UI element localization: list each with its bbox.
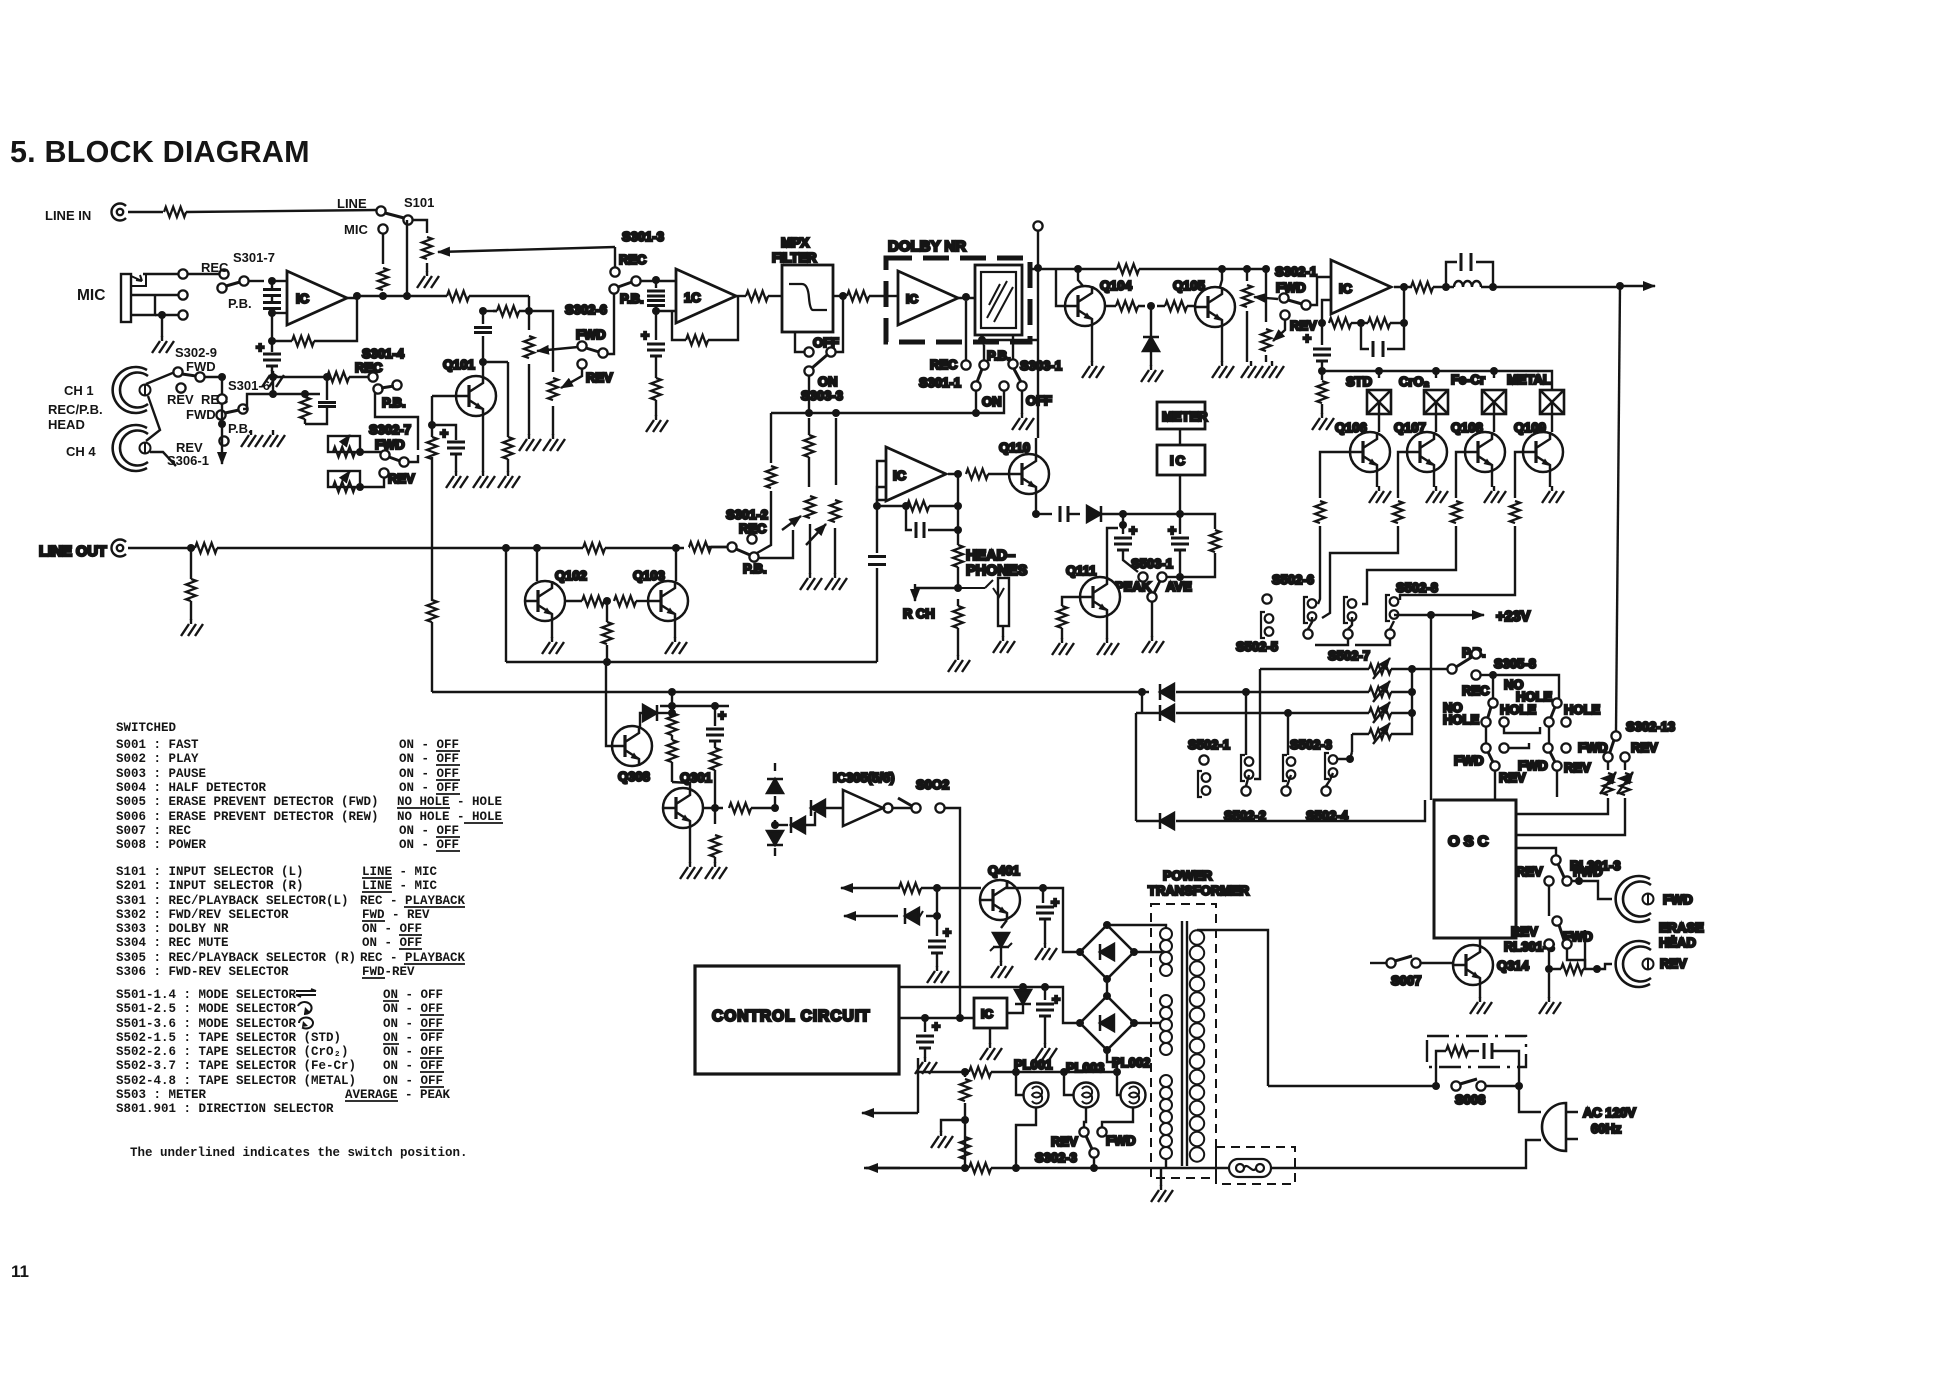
svg-text:HĖAD: HĖAD (1659, 935, 1696, 950)
svg-text:Q105: Q105 (1173, 278, 1205, 293)
resistor Q109 base (1515, 452, 1523, 498)
filter curve (789, 284, 827, 310)
svg-text:REV: REV (1516, 864, 1543, 879)
svg-text:STD: STD (1346, 374, 1372, 389)
svg-text:HOLE: HOLE (1443, 712, 1479, 727)
wire S302-6 riser (607, 294, 614, 354)
wire S101 to record level pot (412, 220, 427, 233)
svg-text:Q103: Q103 (633, 568, 665, 583)
legend underlines (345, 751, 503, 1101)
resistor (bus) (1117, 264, 1139, 274)
svg-text:P.B.: P.B. (620, 291, 644, 306)
ground (498, 471, 520, 488)
svg-text:S302-1: S302-1 (1275, 264, 1317, 279)
wire reg out arrows (841, 887, 937, 889)
resistor (line out) (186, 579, 196, 601)
svg-text:AVERAGE - PEAK: AVERAGE - PEAK (345, 1088, 451, 1102)
wire staircase (1400, 526, 1515, 600)
svg-text:LINE OUT: LINE OUT (39, 544, 107, 560)
erase head FWD (1616, 876, 1654, 922)
wire Q104 base (1056, 269, 1065, 306)
wire to node (382, 294, 384, 296)
wire bus y413 (771, 412, 976, 414)
wire REC riser (752, 527, 757, 534)
diode row A (1160, 684, 1174, 700)
inductor L (1454, 281, 1481, 287)
svg-text:+: + (1168, 522, 1176, 538)
resistor (mic) (378, 268, 388, 290)
svg-text:HEAD: HEAD (48, 417, 85, 432)
wire Q101 resistor right (507, 362, 509, 437)
svg-text:REV: REV (1660, 956, 1687, 971)
row 1 (top) to P.B. (1260, 668, 1447, 670)
svg-text:S502-8: S502-8 (1396, 580, 1438, 595)
svg-text:S501-3.6 : MODE SELECTOR: S501-3.6 : MODE SELECTOR (116, 1017, 297, 1031)
svg-text:ON - OFF: ON - OFF (362, 936, 422, 950)
resistor (output) (746, 291, 768, 301)
svg-text:ON - OFF: ON - OFF (399, 738, 459, 752)
svg-text:IC: IC (1339, 281, 1353, 296)
filter RC (1436, 1051, 1446, 1086)
lower diode wire (1135, 713, 1137, 821)
svg-text:ON: ON (818, 374, 838, 389)
op-amp U102 (676, 269, 736, 323)
wire erase fwd junction (1579, 869, 1585, 969)
node B chain down (528, 311, 530, 330)
svg-text:LINE: LINE (337, 196, 367, 211)
svg-text:ON: ON (982, 394, 1002, 409)
svg-text:S305-8: S305-8 (1494, 656, 1536, 671)
op-amp (dolby IC) (898, 271, 958, 325)
svg-text:S007: S007 (1391, 973, 1421, 988)
svg-text:REV: REV (1511, 924, 1538, 939)
svg-text:S305 : REC/PLAYBACK SELECTOR (: S305 : REC/PLAYBACK SELECTOR (R) (116, 951, 356, 965)
resistor (out) (1411, 282, 1433, 292)
svg-text:FWD: FWD (1276, 280, 1306, 295)
svg-text:POWER: POWER (1163, 868, 1213, 883)
transistor Q308 (612, 726, 652, 766)
svg-text:HEAD–: HEAD– (966, 548, 1015, 564)
wire Q104 collector (1078, 269, 1083, 286)
svg-text:S201 : INPUT SELECTOR (R): S201 : INPUT SELECTOR (R) (116, 879, 304, 893)
svg-text:S306-1: S306-1 (167, 453, 209, 468)
svg-text:PL003: PL003 (1066, 1060, 1104, 1075)
coupling cap riser (877, 500, 886, 662)
wire resistor to S101 LINE contact (186, 210, 376, 212)
svg-text:CH 4: CH 4 (66, 444, 96, 459)
dolby cell box (hatched) (975, 265, 1022, 335)
resistor coupling (582, 596, 604, 606)
svg-text:LINE - MIC: LINE - MIC (362, 879, 438, 893)
svg-text:IC305(5/6): IC305(5/6) (833, 770, 894, 785)
wire Q101 base chain (432, 395, 456, 397)
svg-text:Q109: Q109 (1514, 420, 1546, 435)
svg-text:P.B.: P.B. (382, 395, 406, 410)
svg-text:IC: IC (893, 468, 907, 483)
svg-text:TRANSFORMER: TRANSFORMER (1148, 883, 1250, 898)
wire pot wiper arrow from S301-3 REC (438, 247, 615, 252)
wire line out bus (128, 547, 727, 548)
wires mic jack to S301-7 (143, 273, 178, 275)
pilot lamp bus (918, 1071, 1117, 1073)
svg-text:FWD: FWD (576, 327, 606, 342)
X indicator STD (1378, 371, 1380, 378)
svg-text:IC: IC (906, 292, 918, 306)
svg-text:S302-13: S302-13 (1626, 719, 1675, 734)
svg-text:S008: S008 (1455, 1092, 1485, 1107)
wire riser to opamp (1310, 277, 1331, 305)
pot (pb level R) (835, 418, 837, 485)
svg-text:Q107: Q107 (1394, 420, 1426, 435)
svg-text:CH 1: CH 1 (64, 383, 94, 398)
wire (886, 295, 898, 297)
svg-text:DOLBY NR: DOLBY NR (888, 238, 966, 255)
feedback resistor 1 (1318, 319, 1326, 327)
svg-text:ON - OFF: ON - OFF (399, 824, 459, 838)
svg-text:HOLE: HOLE (1564, 702, 1600, 717)
bridge rectifier D402 (1080, 996, 1134, 1050)
capacitor (collector) (482, 311, 484, 362)
wire left drop (770, 413, 772, 463)
wire PB contact riser / node (981, 335, 983, 340)
switch S301-4 (368, 372, 377, 381)
transistor Q109 (1551, 402, 1553, 432)
IC box (meter amp) (1157, 445, 1205, 475)
op-amp U104 (headphone) (886, 447, 946, 501)
svg-text:REC: REC (930, 357, 958, 372)
switch S306-1 lower (216, 410, 225, 419)
resistor lower (953, 606, 963, 628)
wires opamp inputs (272, 280, 287, 282)
svg-text:+: + (1303, 330, 1311, 346)
svg-text:S007 : REC: S007 : REC (116, 824, 192, 838)
wire P.B. caps feedback row (243, 394, 273, 409)
feedback cap (1361, 323, 1404, 349)
wire to REV pot (529, 311, 553, 372)
primary winding 2 (1160, 995, 1166, 1023)
record level pot VR101 (422, 237, 432, 259)
output node (1400, 283, 1408, 291)
op-amp U103 (1331, 260, 1391, 314)
diode (meter drive) (1087, 506, 1101, 522)
svg-text:S303-1: S303-1 (1020, 358, 1062, 373)
ground pair under switches (241, 430, 263, 447)
ground (Q314) (1470, 997, 1492, 1014)
svg-text:NO HOLE - HOLE: NO HOLE - HOLE (397, 810, 502, 824)
X indicator METAL (1540, 390, 1564, 414)
svg-text:ON - OFF: ON - OFF (383, 988, 443, 1002)
ground (cap) (446, 471, 468, 488)
pot wiper arrows (782, 516, 801, 530)
legend switched list (116, 721, 502, 1160)
svg-text:FWD: FWD (1663, 892, 1693, 907)
svg-text:REV: REV (586, 370, 613, 385)
svg-text:METER: METER (1162, 409, 1208, 424)
svg-text:FILTER: FILTER (772, 250, 817, 265)
wire ON riser to bus (808, 376, 810, 413)
diode (1015, 990, 1031, 1004)
svg-text:MIC: MIC (77, 287, 105, 304)
svg-text:FWD: FWD (1518, 758, 1548, 773)
svg-text:Q401: Q401 (988, 863, 1020, 878)
svg-text:S005 : ERASE PREVENT DETECTOR: S005 : ERASE PREVENT DETECTOR (FWD) (116, 795, 379, 809)
svg-text:Q104: Q104 (1100, 278, 1133, 293)
ground (transformer) (1160, 1168, 1162, 1186)
switch S006 (erase prevent REW) (1552, 698, 1561, 707)
wire ctrl 2 (899, 1017, 974, 1019)
wire to S502-6 (1318, 526, 1320, 604)
wire output (736, 295, 746, 297)
pot (REV level) (548, 378, 558, 400)
svg-text:FWD: FWD (1106, 1133, 1136, 1148)
main bus lower (y692) (432, 691, 1149, 693)
svg-text:REC: REC (1462, 683, 1490, 698)
ground (181, 619, 203, 636)
diode row B (1141, 692, 1143, 713)
svg-text:S002 : PLAY: S002 : PLAY (116, 752, 199, 766)
diode (meter rect) (1150, 306, 1152, 366)
svg-text:LINE - MIC: LINE - MIC (362, 865, 438, 879)
svg-text:S302 : FWD/REV SELECTOR: S302 : FWD/REV SELECTOR (116, 908, 289, 922)
mode selector symbols (296, 989, 316, 1028)
wire +23V rail (1394, 614, 1431, 616)
svg-text:Q101: Q101 (443, 357, 475, 372)
transistor Q301 (663, 788, 703, 828)
pot (pb level L) (805, 496, 815, 518)
svg-text:FWD-REV: FWD-REV (362, 965, 415, 979)
switch S502-5 (1262, 594, 1271, 603)
svg-text:+: + (440, 425, 448, 441)
svg-text:S503 : METER: S503 : METER (116, 1088, 207, 1102)
transistor Q107 (1435, 402, 1437, 432)
OSC box (1434, 800, 1516, 938)
ground (pot) (417, 271, 439, 288)
wire rev contact down (1548, 886, 1550, 916)
svg-text:S101: S101 (404, 195, 434, 210)
svg-text:S502-2.6 : TAPE SELECTOR (CrO₂: S502-2.6 : TAPE SELECTOR (CrO₂) (116, 1045, 349, 1059)
X indicator CrO2 (1435, 371, 1437, 378)
svg-text:S502-4.8 : TAPE SELECTOR (META: S502-4.8 : TAPE SELECTOR (METAL) (116, 1074, 356, 1088)
svg-text:S503-1: S503-1 (1131, 556, 1173, 571)
wire Q101 emitter (482, 416, 484, 472)
transistor Q106 (1378, 402, 1380, 432)
svg-text:REC - PLAYBACK: REC - PLAYBACK (360, 894, 466, 908)
wire FWD wiper arrow (537, 347, 578, 351)
relay RL301-3 (fwd) (1551, 855, 1560, 864)
bias bus (1318, 367, 1326, 375)
resistor (coupling) (1116, 301, 1138, 311)
resistor (847, 291, 869, 301)
svg-text:S502-7: S502-7 (1328, 648, 1370, 663)
ground (Q101) (473, 471, 495, 488)
svg-text:FWD: FWD (1454, 753, 1484, 768)
svg-text:+: + (943, 924, 951, 940)
arrow (to motor) (862, 1112, 918, 1114)
transistor Q108 (1493, 402, 1495, 432)
svg-text:+23V: +23V (1496, 609, 1531, 625)
resistor to ground (1321, 371, 1323, 380)
svg-text:REC/P.B.: REC/P.B. (48, 402, 103, 417)
switch S008 (1451, 1081, 1460, 1090)
trimmer pot (REV eq) (328, 471, 360, 487)
svg-text:+: + (932, 1018, 940, 1034)
svg-text:R CH: R CH (903, 606, 935, 621)
svg-text:MPX: MPX (781, 235, 810, 250)
pot (FWD level) (524, 336, 534, 358)
wire arm to opamp (640, 280, 676, 282)
svg-text:Q314: Q314 (1497, 958, 1530, 973)
transistor Q401 (980, 880, 1020, 920)
switch S007 (1370, 962, 1386, 964)
svg-text:S302-9: S302-9 (175, 345, 217, 360)
wire bridge1-bridge2 (1106, 979, 1108, 996)
transistor Q102 (502, 544, 510, 552)
svg-text:REC - PLAYBACK: REC - PLAYBACK (360, 951, 466, 965)
relay RL301-3 (rev) (1552, 916, 1561, 925)
svg-text:REV: REV (1051, 1134, 1078, 1149)
wire S301-6 vertical (406, 220, 408, 296)
wire REC net (1492, 675, 1494, 698)
IC box (regulator) (974, 998, 1007, 1028)
svg-text:S006 : ERASE PREVENT DETECTOR: S006 : ERASE PREVENT DETECTOR (REW) (116, 810, 379, 824)
transistor Q104 (1065, 286, 1105, 326)
transistor Q111 (1080, 577, 1120, 617)
wire lower bus (506, 661, 877, 663)
svg-text:S301 : REC/PLAYBACK SELECTOR(L: S301 : REC/PLAYBACK SELECTOR(L) (116, 894, 349, 908)
wire Q101 collector (482, 362, 484, 376)
Q110 emitter node (1032, 510, 1040, 518)
svg-text:REC: REC (201, 260, 229, 275)
wire output arrow (1616, 282, 1624, 290)
secondary winding (1190, 930, 1204, 944)
bias chain above Q301 (668, 702, 676, 710)
svg-text:S304 : REC MUTE: S304 : REC MUTE (116, 936, 229, 950)
svg-text:S004 : HALF DETECTOR: S004 : HALF DETECTOR (116, 781, 267, 795)
feedback resistor 2 (1368, 318, 1390, 328)
wire ON contact riser (975, 391, 977, 413)
svg-text:P.B.: P.B. (743, 561, 767, 576)
svg-text:S301-6: S301-6 (228, 378, 270, 393)
svg-text:SWITCHED: SWITCHED (116, 721, 177, 735)
resistor (bus) (447, 291, 469, 301)
svg-text:ON - OFF: ON - OFF (383, 1031, 443, 1045)
jog wires (1504, 727, 1540, 733)
resistor (output) (966, 469, 988, 479)
svg-text:+: + (718, 707, 726, 723)
svg-text:HOLE: HOLE (1500, 702, 1536, 717)
diode into inverter (811, 800, 825, 816)
resistor (766, 466, 776, 488)
rec/pb head CH1 (113, 367, 151, 413)
wire Q101 down-chain crossing (431, 457, 433, 692)
svg-text:S301-2: S301-2 (726, 507, 768, 522)
resistor headphone chain (953, 545, 963, 567)
resistor erase (1548, 949, 1550, 969)
trimmer (bias rev) (1624, 762, 1626, 770)
wire Q104 emitter to ground (1091, 326, 1093, 362)
wire Q105 emitter (1221, 327, 1223, 362)
svg-text:METAL: METAL (1507, 372, 1551, 387)
svg-text:P.B.: P.B. (228, 296, 252, 311)
svg-text:+: + (256, 339, 264, 355)
svg-text:PL001: PL001 (1014, 1057, 1052, 1072)
svg-text:MIC: MIC (344, 222, 368, 237)
terminal circle (1033, 221, 1042, 230)
resistor Q107 base (1398, 452, 1407, 498)
ground (646, 415, 668, 432)
wire arrow down (221, 404, 223, 464)
bridge rectifier D401 (1080, 925, 1134, 979)
svg-text:ON - OFF: ON - OFF (383, 1017, 443, 1031)
svg-text:ON - OFF: ON - OFF (399, 781, 459, 795)
resistor (collector load) (497, 306, 519, 316)
mic jack (121, 274, 131, 322)
wire lower input (1322, 300, 1331, 323)
switch S301-1 (961, 360, 970, 369)
meter cal resistor loop (1180, 514, 1215, 529)
svg-text:ERASE: ERASE (1659, 920, 1704, 935)
svg-text:ON - OFF: ON - OFF (399, 752, 459, 766)
junction node A (268, 277, 276, 285)
resistor (bias) (300, 397, 310, 419)
svg-text:OFF: OFF (813, 335, 839, 350)
wire Q301 collector right (703, 807, 723, 809)
resistor (503, 437, 513, 459)
svg-text:Q308: Q308 (618, 769, 650, 784)
wire ctrl 1 (899, 987, 1080, 1023)
svg-text:S302-6: S302-6 (565, 302, 607, 317)
S502-7 open contacts (1303, 629, 1312, 638)
wire long vertical to S302-13 (1616, 286, 1620, 731)
line filter dash-dot box (1427, 1036, 1526, 1067)
transistor Q103 (648, 581, 688, 621)
wires heads to switches (146, 372, 175, 384)
svg-text:Q102: Q102 (555, 568, 587, 583)
svg-text:S008 : POWER: S008 : POWER (116, 838, 207, 852)
svg-text:S302-7: S302-7 (369, 422, 411, 437)
wire Q105 collector (1220, 269, 1222, 287)
OSC right connections (1516, 848, 1556, 855)
switch S303-1 (1008, 359, 1017, 368)
svg-text:P.B.: P.B. (987, 348, 1011, 363)
wire REC contact riser (965, 301, 967, 360)
capacitor C101 (two series) (271, 281, 273, 313)
bypass cap over inductor (1446, 262, 1493, 287)
wire opamp feedback (272, 313, 292, 341)
svg-text:IC: IC (1170, 453, 1187, 468)
switch S301-3 / S302-6 REC-PB (609, 284, 618, 293)
node mic ground branch (158, 311, 166, 319)
resistor (Q101 base) (427, 437, 437, 459)
LINE IN jack J1 (111, 204, 126, 221)
wire down to OSC (1430, 615, 1432, 800)
AC plug (1542, 1103, 1566, 1151)
svg-text:FWD: FWD (1578, 740, 1608, 755)
METER box (1157, 402, 1205, 429)
svg-text:CrO₂: CrO₂ (1399, 374, 1430, 389)
transistor Q314 (1453, 945, 1493, 985)
svg-text:ON - OFF: ON - OFF (383, 1002, 443, 1016)
capacitor (input) (655, 280, 657, 311)
transistor Q105 (1195, 287, 1235, 327)
svg-text:IC: IC (296, 291, 310, 306)
secondary top lead (1197, 930, 1268, 1086)
R CH arrow (915, 584, 958, 601)
wire REC riser to record pot (614, 247, 616, 267)
svg-text:Fe-Cr: Fe-Cr (1451, 372, 1485, 387)
resistor (line in series) (164, 207, 186, 217)
svg-text:+: + (1129, 522, 1137, 538)
